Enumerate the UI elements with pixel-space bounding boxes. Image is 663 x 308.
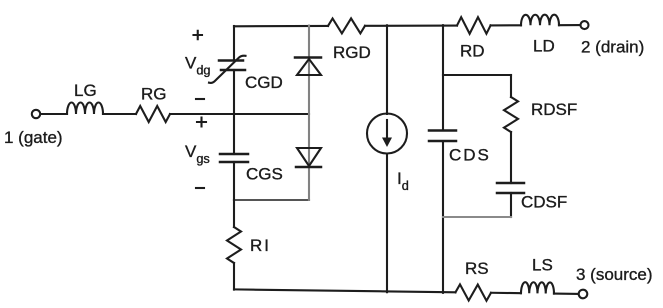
wire CGD branch upper xyxy=(233,26,235,60)
resistor RS xyxy=(455,284,491,300)
svg-text:RG: RG xyxy=(141,85,167,104)
polarity + above Vgs xyxy=(197,118,206,127)
svg-text:CGD: CGD xyxy=(245,73,283,92)
svg-text:RI: RI xyxy=(250,236,271,255)
resistor RI xyxy=(227,227,241,263)
capacitor CGD arrow slash xyxy=(209,56,246,83)
inductor LD xyxy=(521,15,559,26)
wire RDSF to CDSF xyxy=(510,132,512,183)
wire LG to RG xyxy=(103,113,136,115)
capacitor CDS plates xyxy=(429,129,456,132)
resistor RDSF xyxy=(504,97,518,132)
resistor RD xyxy=(457,17,491,34)
svg-text:RD: RD xyxy=(460,42,485,61)
polarity - below Vdg xyxy=(196,98,204,100)
terminal 1 (gate) xyxy=(32,110,40,118)
wire node to RI xyxy=(233,200,235,227)
wire gate node down to CGS xyxy=(233,114,235,154)
current source Id circle xyxy=(367,114,407,154)
wire diode branch xyxy=(308,26,310,201)
wire CDS bottom xyxy=(442,141,444,293)
svg-text:LD: LD xyxy=(533,37,555,56)
svg-text:2 (drain): 2 (drain) xyxy=(581,38,644,57)
wire lower gate node horizontal xyxy=(234,199,309,201)
wire CGD top node to RGD xyxy=(234,25,328,27)
wire CDSF return to CDS branch xyxy=(443,216,511,218)
resistor RG xyxy=(136,106,170,122)
diode D2 xyxy=(297,148,321,166)
svg-text:RS: RS xyxy=(465,259,489,278)
wire LD to terminal 2 xyxy=(559,24,580,26)
wire LS to terminal 3 xyxy=(554,293,578,295)
wire RI to bottom wire xyxy=(233,263,235,290)
svg-text:CDSF: CDSF xyxy=(521,193,567,212)
wire terminal1 to LG xyxy=(41,113,67,115)
bottom source wire xyxy=(234,289,455,292)
capacitor CGS plates xyxy=(220,153,248,156)
svg-text:Vgs: Vgs xyxy=(185,142,210,166)
diode D1 xyxy=(297,59,321,75)
diode D1 cathode bar xyxy=(295,56,321,59)
inductor LG xyxy=(67,103,103,114)
terminal 2 (drain) xyxy=(580,21,588,29)
wire RD to LD xyxy=(490,24,520,26)
svg-text:CGS: CGS xyxy=(246,165,283,184)
wire CDSF bottom lead xyxy=(510,193,512,217)
wire RG to gate node xyxy=(170,113,309,115)
wire CDS branch top xyxy=(442,25,444,130)
svg-text:1 (gate): 1 (gate) xyxy=(4,128,63,147)
wire RDSF top lead xyxy=(510,75,512,97)
wire CGD to gate wire xyxy=(233,70,235,114)
capacitor CDSF plates xyxy=(497,182,524,185)
diode D2 cathode bar xyxy=(296,166,321,169)
terminal 3 (source) xyxy=(579,290,588,299)
svg-text:RDSF: RDSF xyxy=(531,100,577,119)
svg-text:CDS: CDS xyxy=(449,146,491,165)
current source arrow xyxy=(386,120,388,139)
wire RS to LS xyxy=(491,292,521,294)
top drain-side row (slightly skewed as in scan) xyxy=(234,15,589,35)
wire RGD to RD xyxy=(365,24,457,26)
resistor RGD xyxy=(328,18,365,33)
wire to RDSF branch xyxy=(443,74,511,76)
svg-text:RGD: RGD xyxy=(333,43,371,62)
polarity - below Vgs xyxy=(196,187,204,189)
polarity + above Vdg xyxy=(194,31,203,40)
svg-text:Id: Id xyxy=(397,169,409,193)
svg-text:Vdg: Vdg xyxy=(185,54,211,78)
svg-text:LS: LS xyxy=(532,256,553,275)
inductor LS xyxy=(521,282,554,293)
wire current source bottom xyxy=(386,154,388,293)
svg-text:LG: LG xyxy=(74,81,97,100)
bottom source row (slightly skewed as in scan) xyxy=(234,278,588,302)
wire CGS to lower node xyxy=(233,162,235,200)
wire current source top xyxy=(386,25,388,114)
svg-text:3 (source): 3 (source) xyxy=(576,265,653,284)
capacitor CGD (variable) plates xyxy=(219,59,243,62)
